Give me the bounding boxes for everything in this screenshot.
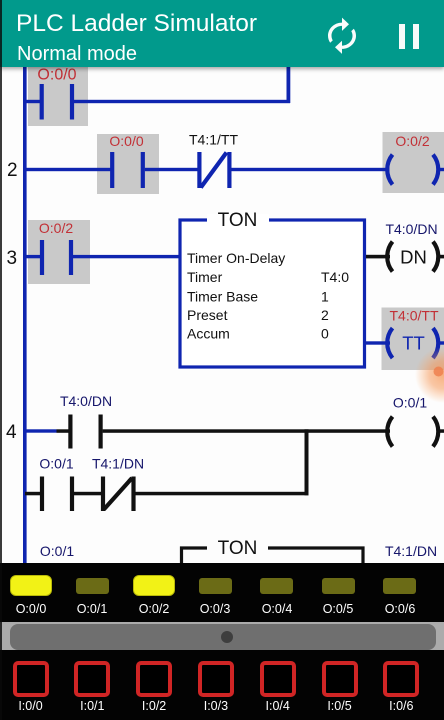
NC contact T4:1/TT (199, 152, 229, 188)
wire contact to TON block (73, 255, 180, 258)
button I:0/0 (13, 661, 49, 697)
svg-text:0: 0 (321, 326, 329, 342)
gray highlight box contact O:0/0 rung2 (97, 134, 159, 194)
button labels (0, 699, 444, 715)
contact T4:0/DN (70, 415, 100, 449)
NC contact T4:1/DN branch (103, 477, 134, 512)
lamp O:0/1 off (76, 578, 109, 594)
svg-text:O:0/2: O:0/2 (39, 220, 73, 236)
wire DN coil to edge (438, 255, 444, 259)
contact O:0/1 branch (42, 477, 72, 512)
svg-text:T4:0/TT: T4:0/TT (389, 308, 438, 324)
scrollbar strip (0, 622, 444, 650)
svg-text:1: 1 (321, 289, 329, 305)
wire branch to connector (136, 492, 309, 496)
app bar (0, 0, 444, 67)
lamp O:0/4 off (260, 578, 293, 594)
svg-text:Timer: Timer (187, 269, 223, 285)
svg-text:TT: TT (402, 333, 425, 354)
touch indicator blob (415, 347, 444, 403)
scrollbar dot (221, 631, 233, 643)
button I:0/6 (383, 661, 419, 697)
svg-text:O:0/1: O:0/1 (39, 456, 73, 472)
scrollbar thumb (10, 624, 436, 650)
branch vertical connector rung4 (305, 429, 309, 495)
output lamp panel (0, 563, 444, 622)
svg-text:Accum: Accum (187, 326, 230, 342)
wire between branch contacts (74, 492, 103, 496)
coil T4:0/DN (387, 242, 438, 272)
gray highlight box contact O:0/0 rung1 (28, 66, 88, 126)
svg-text:3: 3 (7, 248, 18, 269)
svg-text:4: 4 (6, 422, 17, 443)
input button panel (0, 650, 444, 720)
svg-text:O:0/1: O:0/1 (393, 395, 427, 411)
svg-text:DN: DN (400, 247, 427, 268)
lamp O:0/2 on (133, 575, 175, 596)
gray highlight box contact O:0/2 rung3 (28, 220, 90, 284)
wire TON to DN coil (366, 255, 390, 259)
timer block TON T4:1 (partial) (182, 548, 364, 563)
svg-text:T4:1/TT: T4:1/TT (189, 132, 238, 148)
svg-text:Preset: Preset (187, 307, 228, 323)
lamp labels (0, 602, 444, 618)
svg-text:O:0/2: O:0/2 (395, 133, 429, 149)
button I:0/5 (322, 661, 358, 697)
svg-text:O:0/0: O:0/0 (37, 67, 76, 84)
wire between contacts rung2 (145, 168, 200, 171)
svg-text:T4:1/DN: T4:1/DN (385, 543, 437, 559)
lamp O:0/6 off (383, 578, 416, 594)
svg-text:2: 2 (321, 307, 329, 323)
svg-text:TON: TON (218, 538, 258, 559)
svg-text:2: 2 (7, 160, 18, 181)
left edge line (0, 0, 2, 720)
ladder diagram SVG (0, 0, 444, 563)
button I:0/4 (260, 661, 296, 697)
svg-text:TON: TON (218, 210, 258, 231)
sync icon (321, 16, 363, 56)
wire coil to edge rung2 (437, 168, 444, 171)
svg-text:O:0/1: O:0/1 (40, 543, 74, 559)
contact O:0/0 rung1 (42, 84, 72, 120)
wire contact to coil rung4 (103, 429, 390, 433)
coil T4:0/TT (387, 328, 438, 358)
coil O:0/2 (387, 155, 438, 185)
pause icon (399, 24, 405, 49)
gray highlight box coil T4:0/TT (382, 308, 444, 371)
wire stub to contact rung4 (57, 429, 71, 433)
svg-text:T4:0/DN: T4:0/DN (60, 393, 112, 409)
svg-text:Timer Base: Timer Base (187, 289, 258, 305)
button I:0/1 (74, 661, 110, 697)
lamp O:0/3 off (199, 578, 232, 594)
lamp O:0/5 off (322, 578, 355, 594)
wire rail stub blue rung4 (25, 429, 57, 432)
contact O:0/0 rung2 (112, 152, 143, 188)
wire rail to contact rung1 (25, 100, 40, 103)
wire TT coil to edge (438, 341, 444, 344)
button I:0/2 (136, 661, 172, 697)
wire contact to branch rung1 (74, 100, 290, 103)
app subtitle (17, 43, 137, 65)
wire contact to coil rung2 (231, 168, 389, 171)
app title (16, 11, 257, 37)
button I:0/3 (198, 661, 234, 697)
timer block TON T4:0 (180, 210, 365, 367)
wire coil to edge rung4 (438, 429, 444, 433)
svg-text:Timer On-Delay: Timer On-Delay (187, 250, 285, 266)
coil O:0/1 (387, 417, 438, 447)
wire rail to contact rung2 (25, 168, 112, 171)
wire TON to TT coil (366, 341, 390, 344)
left power rail (23, 66, 27, 563)
svg-text:O:0/0: O:0/0 (109, 133, 143, 149)
svg-text:T4:0: T4:0 (321, 269, 349, 285)
wire rail to contact rung3 (25, 255, 42, 258)
wire rail to branch contact (25, 492, 40, 496)
gray highlight box coil O:0/2 rung2 (383, 132, 444, 193)
svg-text:T4:0/DN: T4:0/DN (385, 221, 437, 237)
wire branch up rung1 (287, 66, 291, 103)
contact O:0/2 rung3 (42, 240, 71, 275)
svg-text:T4:1/DN: T4:1/DN (92, 456, 144, 472)
lamp O:0/0 on (10, 575, 52, 596)
